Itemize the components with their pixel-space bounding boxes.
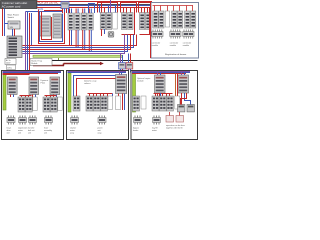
- wires S1 to TB5: [5, 24, 15, 37]
- svg-text:Module: Module: [31, 63, 37, 65]
- IOT terminal strip TB7-1: [172, 11, 177, 28]
- P3 connector icon CN31: [133, 116, 142, 133]
- wires bus to TB3: [124, 8, 131, 13]
- terminal strip TB2-2: [106, 13, 111, 30]
- red loop under TB3: [122, 8, 135, 35]
- svg-text:unit: unit: [28, 132, 32, 135]
- IOT connector CN1: [152, 30, 163, 48]
- P2 connector icon CN21: [70, 116, 79, 135]
- wires TB1 down to mid bundle: [70, 30, 92, 52]
- P2 blue loop wire: [74, 76, 117, 97]
- IOT left red feed wire: [150, 2, 152, 58]
- P2 terminal strip TB22-2: [93, 96, 100, 111]
- wires J10 to TB cluster: [63, 9, 69, 14]
- P1 label text: [41, 80, 49, 85]
- P3 box D bottom wires: [158, 93, 161, 96]
- svg-text:module: module: [152, 45, 158, 47]
- P2 terminal strip TB22-3: [100, 96, 107, 111]
- P3 connector icon CN32: [152, 116, 161, 133]
- P1 green bar: [3, 73, 6, 110]
- power distribution header box PS1: [1, 1, 38, 9]
- P3 top bundle wires: [132, 72, 190, 74]
- terminal strip TB3-1: [121, 13, 126, 30]
- vertical bundle to panel 1: [26, 12, 32, 74]
- frame ground line black: [30, 60, 198, 62]
- terminal strip TB2-1: [100, 13, 105, 30]
- P2 connector icon CN22: [98, 116, 107, 135]
- terminal strip TB1-2: [75, 13, 80, 30]
- interlock switch S1: [8, 21, 20, 29]
- P3 terminal strip TB32-1: [152, 96, 159, 111]
- P1 wires boxes to strips: [11, 95, 57, 98]
- P3 label text: [137, 77, 151, 83]
- P1 terminal strip TB11-1: [18, 97, 25, 112]
- svg-text:assy: assy: [98, 133, 102, 135]
- terminal strip TB1-4: [88, 13, 93, 30]
- terminal strip TB4-2: [145, 13, 150, 30]
- top bus wire blue: [37, 5, 150, 7]
- svg-text:Stand 2 Tray: Stand 2 Tray: [31, 59, 42, 62]
- P3 spare slot 1: [141, 96, 146, 109]
- terminal strip TB1-3: [81, 13, 86, 30]
- terminal strip TB3-2: [128, 13, 133, 30]
- svg-text:module: module: [137, 81, 144, 83]
- P1 red link line group2: [45, 96, 57, 98]
- left feed wire blue: [4, 9, 6, 37]
- P1 connector icon CN12: [18, 116, 27, 135]
- P3 green bar: [133, 73, 136, 112]
- feeder module panel P1 frame: [2, 71, 64, 140]
- svg-text:unit: unit: [7, 132, 11, 135]
- P2 label text: [84, 81, 97, 86]
- wire loop over TB2 red: [98, 3, 118, 13]
- P1 control box B: [29, 77, 39, 95]
- mid bundle horizontal wires: [23, 35, 137, 54]
- wire loop over TB1 right: [89, 4, 95, 14]
- P2 control box: [116, 75, 127, 94]
- P3 terminal strip TB31: [133, 96, 140, 111]
- IOT spare slot: [165, 11, 169, 27]
- P1 red link line group1: [20, 96, 32, 98]
- P2 red drop to TB21: [76, 94, 78, 97]
- wires bus to TB2: [102, 0, 111, 13]
- svg-text:AC In: AC In: [6, 59, 11, 62]
- green AC bus bar: [33, 55, 123, 60]
- IOT connector CN3: [183, 30, 194, 48]
- IOT terminal strip TB7-2: [177, 11, 182, 28]
- P3 connector pair K3a: [178, 105, 185, 112]
- svg-text:colours: colours: [84, 83, 90, 85]
- P3 orange feed wires: [176, 74, 178, 105]
- svg-text:motor: motor: [152, 129, 157, 132]
- P2 terminal strip TB22-1: [86, 96, 93, 111]
- IOT terminal strip TB8-1: [185, 11, 190, 28]
- P1 terminal strip TB12-1: [43, 97, 50, 112]
- IOT frame box: [151, 3, 199, 59]
- wires bus to TB4: [142, 8, 148, 13]
- red loop under TB4: [140, 8, 150, 35]
- red distribution bus in IOT: [153, 6, 194, 12]
- svg-text:5VDC: 5VDC: [7, 67, 12, 69]
- svg-text:module: module: [170, 45, 176, 47]
- spare slot TB2: [113, 13, 118, 30]
- DC supply line dark red with arrow: [33, 62, 104, 66]
- svg-text:Switch: Switch: [8, 16, 15, 19]
- P3 connector pair K3b: [187, 105, 194, 112]
- wires TB2 down: [102, 29, 105, 36]
- svg-text:240V: 240V: [6, 63, 11, 65]
- P3 spare slot 2: [175, 96, 180, 109]
- wire loop red around U3 U4: [39, 10, 65, 44]
- relay box U3: [40, 16, 51, 36]
- P1 spare slot 1: [33, 97, 37, 111]
- svg-text:unit: unit: [18, 132, 22, 135]
- terminal strip TB1-1: [68, 13, 73, 30]
- P3 note text: [166, 124, 185, 130]
- P2 top bundle wires: [68, 72, 127, 73]
- label box L1: [5, 59, 16, 65]
- P2 red link line: [88, 94, 113, 97]
- P3 red link line: [154, 94, 173, 97]
- P3 box top drops: [158, 72, 185, 76]
- P1 control box C: [50, 77, 60, 95]
- svg-text:assy: assy: [70, 133, 74, 135]
- P1 connector icon CN13: [28, 116, 37, 135]
- P3 control box E: [178, 75, 189, 93]
- bus inline connector J10: [61, 2, 69, 9]
- top bus wire red: [37, 1, 152, 3]
- label box L1b: [7, 65, 16, 70]
- IOT terminal strip TB6-1: [153, 11, 158, 28]
- P3 fuse box F2: [176, 116, 184, 123]
- finisher module panel P2 frame: [67, 71, 129, 140]
- top bus wire red lower: [37, 7, 150, 9]
- left interlock label text: [8, 14, 20, 20]
- P2 terminal strip TB21: [73, 96, 80, 111]
- P1 spare slot 2: [58, 97, 62, 111]
- P1 control box A: [8, 77, 18, 95]
- P3 box E bottom wires: [181, 93, 191, 105]
- wires K1 to panels: [121, 69, 131, 75]
- inline connector pair K1: [119, 63, 133, 70]
- top bus wire black: [37, 4, 150, 6]
- P3 terminal strip TB32-2: [159, 96, 166, 111]
- IOT terminal strip TB6-2: [159, 11, 164, 28]
- terminal board TB5: [7, 36, 22, 58]
- svg-text:SW: SW: [10, 27, 13, 29]
- P1 terminal strip TB12-2: [50, 97, 57, 112]
- P3 fuse box F1: [166, 116, 174, 123]
- fan motor icon M1: [108, 32, 114, 38]
- svg-text:unit: unit: [44, 132, 48, 135]
- terminal strip TB4-1: [139, 13, 144, 30]
- P1 terminal strip TB11-2: [25, 97, 32, 112]
- wires bus to TB1: [70, 9, 92, 14]
- P1 connector icon CN11: [7, 116, 16, 135]
- P1 connector icon CN14: [44, 116, 53, 135]
- relay box U4: [53, 14, 62, 38]
- wire loop over TB2 blue: [100, 6, 116, 13]
- wire loop red inner U3: [42, 12, 52, 40]
- svg-text:Registration of drawer: Registration of drawer: [165, 53, 187, 56]
- P2 spare slot 1: [108, 96, 112, 110]
- svg-text:module: module: [183, 45, 189, 47]
- high capacity feeder panel P3 frame: [131, 71, 198, 140]
- secondary bus blue: [26, 11, 63, 13]
- P2 spare slot 2: [116, 96, 121, 110]
- svg-text:operation can be done: operation can be done: [166, 124, 185, 127]
- P2 red loop wire: [77, 79, 117, 97]
- P2 green bar: [68, 73, 71, 112]
- IOT terminal strip TB8-2: [190, 11, 195, 28]
- P3 fuse wires: [170, 112, 180, 116]
- svg-text:Main Power: Main Power: [8, 14, 20, 17]
- wire loop over TB4 red: [139, 3, 151, 13]
- svg-text:together with the lift: together with the lift: [166, 127, 183, 130]
- wires bundle into K1: [121, 54, 131, 63]
- P2 box top drops: [120, 72, 122, 75]
- svg-text:Optional copier: Optional copier: [137, 77, 151, 80]
- wire loop over TB3 red: [121, 3, 137, 13]
- wire loop blue around U3 U4: [40, 12, 63, 42]
- P3 control box D: [155, 75, 166, 93]
- left feed wire red: [2, 9, 4, 37]
- P3 terminal strip TB32-3: [166, 96, 173, 111]
- IOT connector CN2: [170, 30, 181, 48]
- secondary bus red: [44, 10, 62, 12]
- svg-text:AC power cord: AC power cord: [2, 4, 21, 8]
- P1 top bundle wires: [3, 72, 62, 75]
- P2 box bottom wires: [113, 94, 125, 111]
- label box L2: [30, 59, 52, 66]
- svg-text:feeder: feeder: [133, 129, 139, 132]
